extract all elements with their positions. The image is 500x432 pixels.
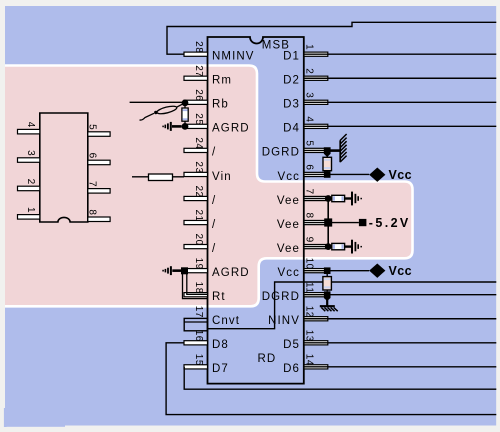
U1 pin 15 stub	[184, 354, 208, 369]
U1 pin 25 stub	[184, 113, 208, 128]
svg-text:24: 24	[193, 137, 204, 149]
wire DGRD pin 11 to right edge	[304, 294, 496, 296]
U2 pin 5	[87, 124, 111, 136]
U1 pin 8 stub	[303, 213, 327, 225]
U1 pin 16 stub	[184, 330, 208, 345]
junction on pin 25	[182, 123, 189, 130]
svg-text:5: 5	[87, 124, 98, 130]
svg-text:9: 9	[303, 237, 314, 243]
svg-text:2: 2	[25, 179, 36, 185]
wire to earth ground	[326, 300, 328, 306]
ground (AGRD pin 25, left-pointing)	[163, 122, 182, 131]
junction square on pin 6	[324, 171, 331, 178]
svg-text:5: 5	[303, 140, 314, 146]
window edge notch bottom-left	[4, 408, 7, 427]
svg-text:/: /	[212, 219, 216, 231]
svg-text:Cnvt: Cnvt	[212, 315, 240, 327]
resistor pin10-pin11 (vertical)	[323, 274, 332, 291]
U1 pin 23 stub	[184, 161, 208, 176]
svg-text:Vcc: Vcc	[389, 168, 412, 182]
U1 pin 26 stub	[184, 89, 208, 104]
svg-text:Vcc: Vcc	[278, 267, 300, 279]
U1 pin 11 stub	[303, 282, 327, 297]
U1 pin 27 stub	[184, 65, 208, 80]
svg-text:AGRD: AGRD	[212, 123, 250, 135]
U1 pin 7 stub	[303, 188, 327, 200]
svg-text:DGRD: DGRD	[262, 291, 300, 303]
svg-text:D5: D5	[283, 339, 300, 351]
wire Vee pin 9	[304, 246, 328, 248]
wire D1	[304, 53, 496, 55]
U1 pin 6 stub	[303, 164, 327, 176]
svg-text:11: 11	[303, 282, 314, 293]
svg-text:6: 6	[87, 153, 98, 159]
U1 pin 21 stub	[184, 209, 208, 224]
U2 pin 4	[18, 122, 40, 134]
svg-text:Rb: Rb	[212, 99, 229, 111]
U1 pin 5 stub	[303, 140, 327, 152]
wire D3	[304, 101, 496, 103]
svg-text:7: 7	[87, 181, 98, 187]
svg-text:23: 23	[193, 161, 204, 173]
svg-text:/: /	[212, 195, 216, 207]
earth ground (pin 11, hatched)	[320, 306, 338, 311]
U1 pin 20 stub	[184, 234, 208, 249]
power symbol Vcc (pin 10 diamond)	[369, 263, 385, 277]
svg-text:/: /	[212, 243, 216, 255]
svg-text:D4: D4	[283, 123, 300, 135]
ground (pin 9, right-pointing)	[352, 240, 361, 254]
svg-text:12: 12	[303, 306, 314, 318]
svg-text:Rt: Rt	[212, 291, 226, 303]
junction square on pin 8	[324, 218, 332, 226]
U1 pin 17 stub	[193, 306, 204, 318]
svg-text:22: 22	[193, 185, 204, 197]
wire Vee pin 7	[304, 198, 328, 200]
svg-text:1: 1	[303, 44, 314, 50]
wire D7 net (pin 15)	[184, 367, 496, 389]
resistor Rb-AGRD (vertical)	[182, 106, 188, 123]
svg-text:Vee: Vee	[277, 195, 300, 207]
svg-text:10: 10	[303, 258, 314, 270]
svg-text:4: 4	[303, 116, 314, 122]
svg-text:D3: D3	[283, 99, 300, 111]
svg-text:-5.2V: -5.2V	[369, 216, 411, 230]
terminal -5.2V	[359, 219, 367, 226]
U1 pin 13 stub	[303, 330, 327, 345]
svg-text:D1: D1	[283, 51, 300, 63]
junction square on pin 19	[181, 267, 188, 274]
svg-text:18: 18	[193, 282, 204, 294]
svg-text:NINV: NINV	[268, 315, 300, 327]
svg-text:8: 8	[303, 213, 314, 219]
wire Rb net	[130, 101, 185, 103]
U1 pin 14 stub	[303, 354, 327, 369]
svg-text:26: 26	[193, 89, 204, 101]
svg-text:NMINV: NMINV	[212, 51, 255, 63]
junction on pin 9	[325, 243, 332, 250]
svg-text:4: 4	[25, 122, 36, 128]
U1 pin 12 stub	[303, 306, 327, 321]
wire Rt loop (pin 19 to pin 18, outlined)	[183, 274, 208, 299]
svg-text:14: 14	[303, 354, 314, 366]
U1 pin 1 stub	[303, 44, 327, 56]
U2 pin 7	[87, 181, 111, 193]
pin 17 Cnvt wide stub	[184, 318, 207, 330]
wire D8 net (pin 16)	[166, 343, 496, 415]
U1 pin 28 stub	[184, 41, 208, 56]
wire D4	[304, 125, 496, 127]
resistor pin5-pin6 (vertical)	[323, 156, 332, 172]
svg-text:13: 13	[303, 330, 314, 342]
svg-text:/: /	[212, 147, 216, 159]
wire Vcc pin 10	[304, 270, 369, 272]
svg-text:Vee: Vee	[277, 219, 300, 231]
svg-text:DGRD: DGRD	[262, 147, 300, 159]
pink highlight region	[3, 66, 413, 307]
wire NINV pin 12	[304, 318, 496, 320]
svg-text:1: 1	[25, 207, 36, 213]
wire to chassis ground	[330, 149, 340, 152]
svg-text:RD: RD	[258, 353, 277, 365]
U1 pin 18 stub	[184, 282, 208, 297]
svg-text:17: 17	[193, 306, 204, 318]
wire Vin net	[132, 176, 184, 178]
U1 pin 9 stub	[303, 237, 327, 249]
svg-text:Vcc: Vcc	[278, 171, 300, 183]
junction on pin 26	[182, 100, 189, 107]
resistor on Vin (horizontal)	[149, 174, 173, 181]
svg-text:19: 19	[193, 258, 204, 270]
svg-text:D2: D2	[283, 75, 300, 87]
svg-text:8: 8	[87, 209, 98, 215]
svg-text:D7: D7	[212, 363, 229, 375]
U2 pin 2	[18, 179, 40, 191]
wire Vcc pin 6	[304, 173, 369, 175]
inductor loop (hand-drawn wire) on Rb net	[140, 104, 184, 120]
U1 pin 2 stub	[303, 68, 327, 80]
wire D5 pin 13	[304, 342, 496, 344]
svg-text:Vin: Vin	[212, 171, 232, 183]
svg-text:3: 3	[303, 92, 314, 98]
svg-text:7: 7	[303, 188, 314, 194]
junction on pin 7	[325, 195, 332, 202]
svg-text:21: 21	[193, 209, 204, 221]
svg-text:16: 16	[193, 330, 204, 342]
U1 pin 4 stub	[303, 116, 327, 128]
U2 pin 6	[87, 153, 111, 165]
U1 pin 3 stub	[303, 92, 327, 104]
wire Vee pin 8	[304, 222, 359, 224]
IC U1 body (28-pin ADC)	[208, 37, 304, 384]
U1 pin 19 stub	[184, 258, 208, 273]
ground (pin 7, right-pointing)	[352, 192, 361, 206]
svg-text:25: 25	[193, 113, 204, 125]
wire D6 pin 14	[304, 366, 496, 368]
chassis ground (pin 5)	[340, 134, 346, 162]
svg-text:D6: D6	[283, 363, 300, 375]
U1 pin 22 stub	[184, 185, 208, 200]
U1 internal section boundary	[208, 282, 497, 329]
wire D2	[304, 77, 496, 79]
wire DGRD pin 5	[304, 149, 325, 151]
resistor pin 7 (horizontal)	[332, 195, 352, 201]
svg-text:AGRD: AGRD	[212, 267, 250, 279]
svg-text:28: 28	[193, 41, 204, 53]
svg-text:D8: D8	[212, 339, 229, 351]
svg-text:15: 15	[193, 354, 204, 366]
junction square on pin 10	[324, 267, 331, 274]
ground (AGRD pin 19, left-pointing)	[163, 266, 181, 275]
resistor pin 9 (horizontal)	[332, 243, 352, 249]
junction square on pin 5	[324, 147, 331, 157]
U1 pin 24 stub	[184, 137, 208, 152]
svg-text:27: 27	[193, 65, 204, 77]
svg-text:20: 20	[193, 234, 204, 246]
Vee bus vertical wire	[327, 199, 329, 247]
wire NMINV net (pin 28 to top-right)	[167, 22, 496, 54]
U2 pin 3	[18, 150, 40, 162]
U2 pin 1	[18, 207, 40, 219]
svg-text:Vee: Vee	[277, 243, 300, 255]
junction square on pin 11	[324, 291, 331, 301]
U1 pin 10 stub	[303, 258, 327, 273]
power symbol Vcc (pin 6 diamond)	[369, 168, 385, 182]
svg-text:2: 2	[303, 68, 314, 74]
op-amp U2 (8-pin DIP symbol, left)	[40, 113, 88, 222]
svg-text:3: 3	[25, 150, 36, 156]
svg-text:6: 6	[303, 164, 314, 170]
svg-text:Rm: Rm	[212, 75, 232, 87]
svg-text:Vcc: Vcc	[389, 264, 412, 278]
U2 pin 8	[87, 209, 111, 221]
